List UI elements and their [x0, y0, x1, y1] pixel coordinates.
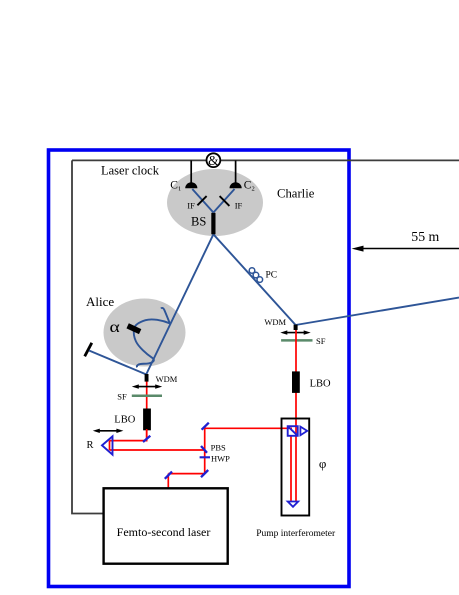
LBO crystal left — [143, 409, 151, 431]
double arrow above prism R — [93, 429, 124, 433]
polarization controller PC coil — [249, 268, 262, 283]
fiber mirror to WDM — [89, 351, 146, 375]
svg-text:LBO: LBO — [114, 415, 135, 426]
red beam from laser — [167, 474, 169, 488]
svg-text:R: R — [87, 440, 94, 451]
detector C1 — [185, 182, 197, 188]
right branch: WDM square — [294, 325, 298, 330]
laser clock line — [72, 159, 459, 161]
svg-text:Pump interferometer: Pump interferometer — [256, 528, 336, 539]
svg-text:WDM: WDM — [264, 317, 286, 327]
IF filter left — [197, 196, 206, 205]
mirror (Alice arm) — [85, 343, 92, 357]
green SF filter left — [132, 394, 162, 397]
svg-text:HWP: HWP — [211, 454, 230, 464]
svg-text:55 m: 55 m — [411, 229, 439, 244]
svg-text:Alice: Alice — [86, 294, 114, 309]
HWP plate — [200, 456, 210, 458]
red beam mirror to prism — [110, 440, 148, 442]
turning mirror bottom left — [165, 472, 172, 479]
55 m arrow — [352, 246, 459, 252]
svg-text:Charlie: Charlie — [277, 187, 315, 201]
svg-text:IF: IF — [235, 200, 243, 210]
fiber BS to WDM right — [213, 234, 295, 325]
red beam prism to PBS — [110, 449, 205, 451]
svg-text:LBO: LBO — [310, 379, 331, 390]
svg-text:BS: BS — [191, 215, 206, 229]
IF filter right — [220, 196, 230, 206]
pump right triangle — [300, 427, 307, 436]
svg-text:WDM: WDM — [156, 374, 178, 384]
fiber squiggle loop — [134, 319, 170, 367]
svg-text:PBS: PBS — [211, 443, 226, 453]
fiber squiggle hook — [161, 308, 170, 323]
red beam vertical through PBS and HWP — [204, 426, 206, 474]
red beam pump vertical — [295, 330, 297, 502]
fiber 55m to right edge — [296, 298, 459, 326]
pump bottom retro triangle — [288, 502, 299, 507]
beam splitter BS — [211, 213, 215, 235]
femto-second laser box — [104, 488, 228, 563]
svg-text:α: α — [110, 319, 120, 336]
Charlie ellipse — [167, 169, 263, 236]
turning mirror top (to pump) — [202, 423, 209, 430]
red beam top to pump interferometer — [205, 427, 292, 429]
red beam pump left arm — [290, 435, 292, 502]
blue boundary box — [49, 150, 350, 587]
PBS diagonal — [201, 446, 207, 453]
svg-text:C2: C2 — [244, 179, 255, 192]
turning mirror bottom right — [201, 470, 208, 477]
svg-text:&: & — [208, 153, 219, 168]
double arrow left WDM — [132, 384, 162, 388]
red beam LBO to mirror — [146, 429, 148, 440]
WDM square left — [145, 374, 149, 382]
alpha modulator bar — [126, 323, 141, 334]
svg-text:SF: SF — [316, 336, 326, 346]
svg-text:φ: φ — [319, 456, 327, 471]
fiber beam C2 to BS — [213, 189, 234, 213]
double arrow right WDM — [280, 330, 310, 334]
svg-text:SF: SF — [117, 391, 127, 401]
AND-gate circle — [207, 153, 221, 167]
retro prism R — [102, 436, 113, 454]
svg-text:Femto-second laser: Femto-second laser — [117, 525, 211, 539]
red beam inside prism — [109, 441, 111, 450]
detector C2 — [230, 182, 242, 188]
LBO crystal right — [292, 371, 300, 393]
red beam left branch — [146, 378, 148, 440]
turning mirror below LBO — [143, 436, 150, 442]
svg-text:IF: IF — [187, 200, 195, 210]
svg-text:Laser clock: Laser clock — [101, 164, 160, 178]
pump PBS cube — [288, 426, 298, 436]
inner box left edge — [72, 160, 105, 513]
red beam bottom horizontal — [168, 473, 205, 475]
fiber beam C1 to BS — [192, 189, 213, 213]
green SF filter right — [281, 339, 312, 342]
pump interferometer box — [282, 419, 310, 516]
Alice ellipse — [104, 299, 186, 367]
svg-text:PC: PC — [266, 270, 278, 280]
wire to detector C1 — [190, 160, 192, 184]
fiber BS to Alice — [146, 234, 213, 374]
wire to detector C2 — [235, 160, 237, 184]
